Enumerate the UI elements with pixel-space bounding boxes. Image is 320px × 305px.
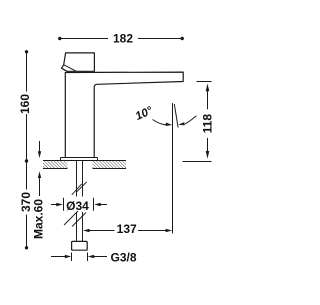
svg-text:Max.60: Max.60 — [32, 199, 46, 239]
svg-text:182: 182 — [113, 32, 133, 46]
svg-text:118: 118 — [200, 114, 214, 134]
svg-text:G3/8: G3/8 — [111, 250, 137, 264]
svg-text:137: 137 — [117, 222, 137, 236]
svg-text:Ø34: Ø34 — [66, 199, 89, 213]
svg-text:160: 160 — [18, 94, 32, 114]
